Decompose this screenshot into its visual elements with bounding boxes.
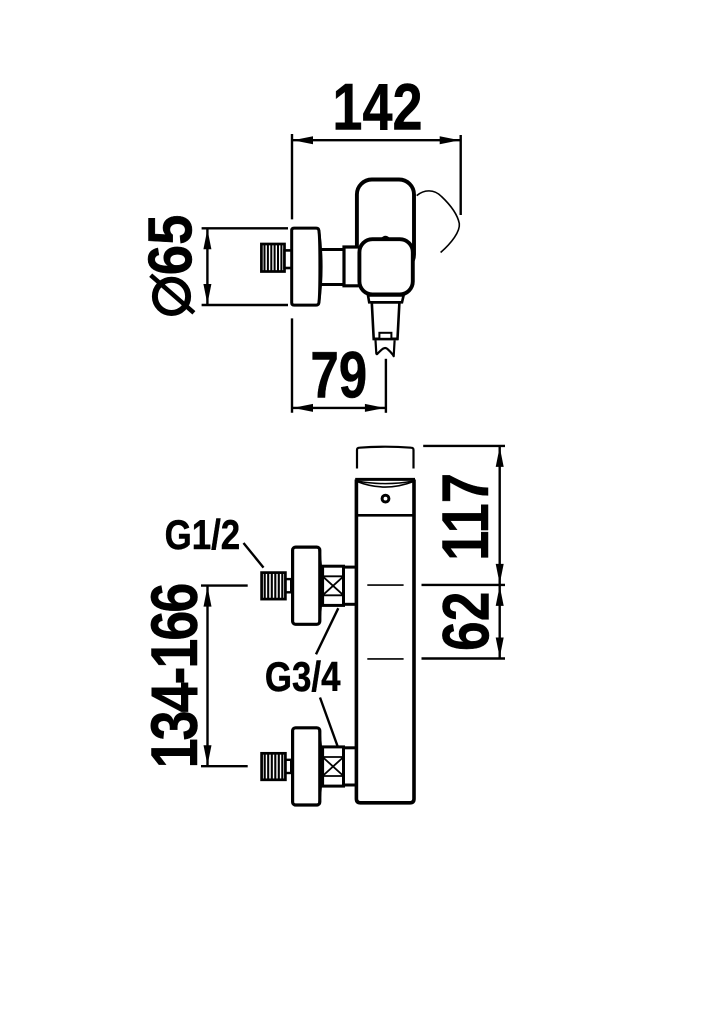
svg-text:79: 79	[310, 338, 367, 412]
svg-text:65: 65	[136, 215, 205, 276]
svg-text:62: 62	[429, 592, 503, 651]
svg-text:G3/4: G3/4	[265, 654, 341, 701]
svg-text:142: 142	[332, 69, 422, 143]
svg-text:G1/2: G1/2	[165, 512, 241, 559]
svg-text:134-166: 134-166	[137, 584, 211, 768]
svg-text:117: 117	[428, 473, 502, 561]
